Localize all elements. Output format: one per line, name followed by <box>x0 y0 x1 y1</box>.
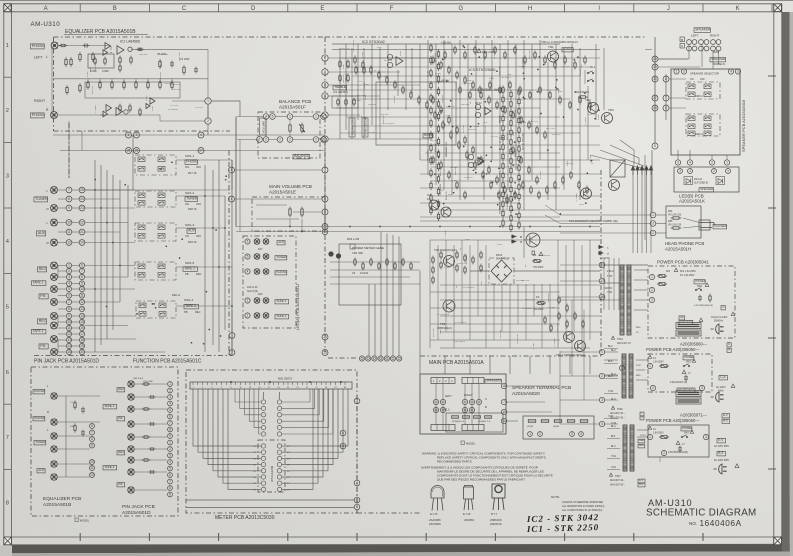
svg-text:13: 13 <box>323 230 327 234</box>
svg-text:POWER METER GENE.: POWER METER GENE. <box>352 246 385 250</box>
svg-text:1: 1 <box>652 213 654 217</box>
svg-text:R9 120K: R9 120K <box>531 118 533 127</box>
svg-text:M01 900?2: M01 900?2 <box>278 377 292 381</box>
svg-text:H: H <box>528 6 532 12</box>
svg-text:C30 10/16V: C30 10/16V <box>462 83 474 85</box>
svg-text:R18 8.2K: R18 8.2K <box>345 73 347 82</box>
x model note <box>75 518 90 523</box>
svg-text:TR1 to 3 2SC936K-NP(E,F): TR1 to 3 2SC936K-NP(E,F) <box>541 40 578 44</box>
svg-text:1: 1 <box>324 113 326 117</box>
svg-text:47uM: 47uM <box>466 80 471 82</box>
svg-text:F2 1.6A 250V: F2 1.6A 250V <box>680 274 695 277</box>
svg-text:13: 13 <box>80 307 84 311</box>
svg-text:UNLESS OTHERWISE SPECIFIED: UNLESS OTHERWISE SPECIFIED <box>562 500 603 504</box>
svg-text:D: D <box>251 6 256 12</box>
svg-text:5: 5 <box>654 144 656 148</box>
svg-text:SW1-3: SW1-3 <box>185 223 195 227</box>
svg-text:VOLUME: VOLUME <box>261 121 265 134</box>
svg-text:6: 6 <box>6 370 9 376</box>
svg-text:MODEL: MODEL <box>466 442 476 446</box>
speaker terminal PCB border <box>420 374 506 434</box>
svg-text:8: 8 <box>503 384 505 388</box>
pin-header column CN2 lower <box>79 263 84 268</box>
svg-text:1: 1 <box>169 382 171 386</box>
bundle vertical lines <box>632 175 634 253</box>
svg-text:R36 6.8K: R36 6.8K <box>435 143 437 152</box>
svg-text:(FU)R67 0.5: (FU)R67 0.5 <box>478 421 491 423</box>
node circle into T602 <box>620 366 625 371</box>
svg-text:2SD863: 2SD863 <box>464 518 475 522</box>
svg-text:4: 4 <box>730 70 732 74</box>
equalizer PCB bottom dashed border <box>31 367 178 516</box>
svg-text:C7 0.068: C7 0.068 <box>558 88 560 97</box>
svg-text:SW1: SW1 <box>697 285 703 288</box>
transistor TR9 <box>443 300 455 312</box>
svg-text:SW1-4: SW1-4 <box>184 298 194 302</box>
svg-text:10: 10 <box>67 221 71 225</box>
svg-text:6: 6 <box>169 415 171 419</box>
equalizer right-channel parts <box>150 98 155 104</box>
svg-text:17: 17 <box>600 279 604 283</box>
svg-text:D5-8: D5-8 <box>496 253 503 257</box>
svg-text:U: U <box>722 305 724 309</box>
svg-text:SPEAKER: SPEAKER <box>695 28 711 32</box>
svg-text:R27 1K: R27 1K <box>500 115 502 123</box>
svg-text:AC OUTLETS: AC OUTLETS <box>678 388 694 391</box>
svg-text:C7 0.068: C7 0.068 <box>524 239 533 241</box>
svg-text:2SD612K: 2SD612K <box>490 522 502 526</box>
svg-text:BLU: BLU <box>608 345 613 348</box>
CA boxed label <box>719 375 727 380</box>
svg-text:R10 10K: R10 10K <box>172 89 181 91</box>
svg-text:AC 220V 50Hz: AC 220V 50Hz <box>714 445 730 448</box>
svg-text:B: B <box>485 405 487 409</box>
function PCB dashed left border <box>228 151 230 356</box>
svg-text:MODELS: MODELS <box>713 62 725 66</box>
function PCB switch SW1-2 TUNER <box>135 191 176 207</box>
svg-text:R64: R64 <box>668 210 673 213</box>
LED(B) connector row <box>675 160 680 165</box>
svg-text:4: 4 <box>247 270 249 274</box>
svg-text:SW3-1: SW3-1 <box>695 94 703 98</box>
svg-text:R36 6.8K: R36 6.8K <box>500 66 502 75</box>
svg-text:REC H: REC H <box>172 293 180 297</box>
svg-text:1: 1 <box>231 334 233 338</box>
svg-text:1: 1 <box>247 314 249 318</box>
svg-text:PHONES: PHONES <box>714 224 727 228</box>
svg-text:RIGHT: RIGHT <box>464 393 473 397</box>
main volume dashed border <box>252 197 325 231</box>
arrow D <box>511 240 517 243</box>
svg-text:P.B: P.B <box>40 344 46 348</box>
svg-text:A2015A501H: A2015A501H <box>665 247 691 252</box>
signal bus wires y135 y150 <box>53 134 325 136</box>
svg-text:METER PCB A2013C5030: METER PCB A2013C5030 <box>215 515 275 521</box>
svg-text:AC13.6V: AC13.6V <box>600 257 610 260</box>
function PCB switch SW1-5 TAPE2 <box>135 262 176 280</box>
svg-text:9: 9 <box>91 444 93 448</box>
svg-text:B: B <box>681 38 683 42</box>
lower fuse box nodes <box>528 432 533 437</box>
jack to header wires <box>58 189 66 191</box>
svg-text:OFF: OFF <box>196 234 202 238</box>
svg-text:2: 2 <box>356 498 358 502</box>
svg-text:PB: PB <box>185 272 189 276</box>
svg-text:2: 2 <box>324 137 326 141</box>
svg-text:R9 120K: R9 120K <box>160 54 169 56</box>
vertical riser wires from eq to bus <box>68 121 70 178</box>
svg-text:IC1 - STK 2250: IC1 - STK 2250 <box>526 522 600 534</box>
input jacks AUX <box>51 219 58 226</box>
svg-text:1: 1 <box>207 99 209 103</box>
bottom eq components <box>74 400 76 409</box>
ruler right ticks <box>768 76 776 469</box>
svg-text:11: 11 <box>67 326 71 330</box>
svg-text:7: 7 <box>503 400 505 404</box>
svg-text:C: C <box>182 6 187 12</box>
svg-text:18: 18 <box>80 338 84 342</box>
x model note 2 <box>461 441 476 446</box>
svg-text:PHONO: PHONO <box>34 389 46 393</box>
svg-text:20: 20 <box>80 350 84 354</box>
svg-text:47uM: 47uM <box>146 96 148 101</box>
svg-text:EQUALIZER PCB A2015A501B: EQUALIZER PCB A2015A501B <box>65 29 136 35</box>
svg-text:6F3 1.6A 250V: 6F3 1.6A 250V <box>680 270 696 273</box>
headphone node circles <box>650 212 656 218</box>
svg-text:1: 1 <box>727 169 729 173</box>
svg-text:AC: AC <box>680 315 684 319</box>
svg-text:R60 5.6K: R60 5.6K <box>179 52 181 61</box>
pin jack and function area bottom dashed border <box>34 355 232 357</box>
svg-text:BLU: BLU <box>611 349 616 352</box>
svg-text:4.7uM: 4.7uM <box>444 267 450 269</box>
svg-text:C21 100/10V: C21 100/10V <box>462 287 475 289</box>
svg-text:YLW: YLW <box>611 422 617 425</box>
capacitor C3 <box>83 44 90 48</box>
transistor TR2 <box>588 103 599 114</box>
svg-text:BLK: BLK <box>608 360 613 363</box>
svg-text:TYW: TYW <box>607 275 613 278</box>
svg-text:HEAD PHONE PCB: HEAD PHONE PCB <box>665 241 704 246</box>
svg-text:100P: 100P <box>343 64 345 69</box>
dashed link to multi connector <box>328 357 358 359</box>
svg-text:D1 DS448: D1 DS448 <box>576 90 589 94</box>
svg-text:3: 3 <box>68 275 70 279</box>
transformer primary node circles column <box>599 349 604 354</box>
svg-text:8: 8 <box>169 428 171 432</box>
power wires to transformer top <box>604 264 648 266</box>
svg-text:2: 2 <box>6 108 9 114</box>
AC outlet hatch 1 <box>676 323 701 337</box>
svg-text:TR1: TR1 <box>548 45 554 49</box>
svg-text:R31 2.2K: R31 2.2K <box>588 114 597 116</box>
svg-text:REC: REC <box>196 272 202 276</box>
svg-text:R60 5.6K: R60 5.6K <box>529 50 531 59</box>
svg-text:4.7uM: 4.7uM <box>435 73 441 75</box>
svg-text:23: 23 <box>80 206 84 210</box>
svg-text:22: 22 <box>80 221 84 225</box>
svg-text:C21 100/10V: C21 100/10V <box>382 123 395 125</box>
svg-text:7: 7 <box>259 138 261 142</box>
svg-text:R36 6.8K: R36 6.8K <box>515 109 517 118</box>
node 2 circle <box>205 118 211 124</box>
svg-text:6F3: 6F3 <box>666 270 671 273</box>
ruler row ticks and numbers 1-8 <box>4 12 12 537</box>
arrow B <box>511 235 517 238</box>
svg-text:B,S: B,S <box>723 419 728 423</box>
svg-text:SLP-235B-51: SLP-235B-51 <box>694 182 709 185</box>
svg-text:R10 10K: R10 10K <box>557 323 559 332</box>
wire eq output to node bus <box>131 48 208 50</box>
svg-text:BLK: BLK <box>611 436 616 438</box>
speaker terminal circles <box>687 40 721 51</box>
svg-text:16: 16 <box>80 326 84 330</box>
volume risers <box>289 219 291 227</box>
power PCB1 node circles <box>649 274 654 279</box>
svg-text:2: 2 <box>207 119 209 123</box>
svg-text:SW1: SW1 <box>686 362 692 364</box>
svg-text:R9 120K: R9 120K <box>500 329 502 338</box>
svg-text:3: 3 <box>324 94 326 98</box>
svg-text:4: 4 <box>169 402 171 406</box>
svg-text:F1,2: F1,2 <box>444 408 450 412</box>
svg-text:R10 10K: R10 10K <box>160 59 162 68</box>
svg-text:C: C <box>641 416 643 419</box>
main amp transistor TR4 <box>581 188 592 199</box>
svg-text:0.022: 0.022 <box>90 66 92 72</box>
mid horizontal rails y226-231 junctions <box>349 226 351 228</box>
svg-text:TUNER: TUNER <box>35 440 46 444</box>
node 7 to balance <box>257 137 263 143</box>
svg-text:2SC536K: 2SC536K <box>429 522 441 526</box>
svg-text:YLW: YLW <box>608 415 614 418</box>
svg-text:RIGHT: RIGHT <box>34 99 46 103</box>
svg-text:TR6,7 2SB680K-NP(E,F): TR6,7 2SB680K-NP(E,F) <box>556 353 585 357</box>
op-amp IC2 triangle <box>396 57 403 66</box>
svg-text:E C B: E C B <box>430 512 437 516</box>
scan border right shadow band <box>782 12 790 552</box>
function PCB switch SW1-3 AUX <box>135 223 176 241</box>
input jacks REC <box>51 262 58 269</box>
transistor package TO-220 drawing 3 <box>492 484 505 510</box>
svg-text:1.6A 250V: 1.6A 250V <box>653 432 664 435</box>
svg-text:4: 4 <box>689 161 691 165</box>
svg-text:2: 2 <box>652 231 654 235</box>
svg-text:C12 22u: C12 22u <box>561 66 570 68</box>
balance boxed label <box>293 154 309 159</box>
svg-text:YLW: YLW <box>611 456 617 458</box>
svg-text:R27 1K: R27 1K <box>507 132 509 140</box>
op-amp IC1b <box>106 105 112 112</box>
svg-text:ALL RESISTORS IN OHMS 1/4W(U): ALL RESISTORS IN OHMS 1/4W(U) <box>562 504 605 508</box>
svg-text:9: 9 <box>169 493 171 497</box>
svg-text:4.7uM: 4.7uM <box>369 132 375 134</box>
svg-text:1640406A: 1640406A <box>700 519 742 528</box>
svg-text:8: 8 <box>169 486 171 490</box>
power PCB3 cap <box>676 441 680 444</box>
function PCB right-side wires to bus <box>176 159 232 161</box>
TR8 transistor <box>444 256 455 267</box>
svg-text:(FU) 2W 220: (FU) 2W 220 <box>668 215 682 217</box>
big emitter follower transistor circle <box>526 233 540 247</box>
svg-text:LED(A) PCB A2015A501J: LED(A) PCB A2015A501J <box>295 284 300 330</box>
meter PCB dashed border <box>186 370 357 513</box>
speaker selector node circles <box>674 69 679 74</box>
power PCB1 dashed border <box>648 266 735 338</box>
power PCB2 bottom nodes <box>650 385 655 390</box>
fuse F4 <box>532 259 542 262</box>
balance volume pot VR <box>263 114 269 120</box>
svg-text:NO.: NO. <box>689 521 697 526</box>
svg-text:IC5 KA2209: IC5 KA2209 <box>270 465 274 482</box>
svg-text:AM-U310: AM-U310 <box>648 498 692 508</box>
speaker switch SW3-2 <box>686 114 720 136</box>
svg-text:8: 8 <box>68 307 70 311</box>
function PCB wiring mesh <box>85 189 135 191</box>
main amp transistor TR5 <box>609 180 620 191</box>
svg-text:A: A <box>44 6 48 12</box>
svg-text:R52 1M: R52 1M <box>364 81 366 89</box>
LED(A) jack pair TUNER row <box>254 254 260 260</box>
AC plug 1 <box>711 324 724 334</box>
svg-text:(FU)R.: (FU)R. <box>527 426 534 428</box>
main amp resistor sprinkle <box>432 56 434 65</box>
svg-text:R44 560: R44 560 <box>461 104 470 106</box>
svg-text:8: 8 <box>81 275 83 279</box>
svg-text:A2015A501B: A2015A501B <box>43 502 71 508</box>
svg-text:R31 2.2K: R31 2.2K <box>341 48 350 50</box>
svg-text:J: J <box>667 6 670 12</box>
ruler bottom ticks <box>80 533 703 541</box>
IC6 1/2 circles cluster <box>429 200 439 210</box>
svg-text:7: 7 <box>91 431 93 435</box>
svg-text:NOTE: NOTE <box>551 495 559 499</box>
speaker terminal bottom strips <box>431 425 455 431</box>
svg-text:2: 2 <box>289 138 291 142</box>
svg-text:47uM: 47uM <box>451 180 456 182</box>
svg-text:SW1-1: SW1-1 <box>185 154 195 158</box>
svg-text:50/60Hz: 50/60Hz <box>714 320 724 323</box>
svg-text:6: 6 <box>272 115 274 119</box>
input jacks TUNER <box>51 187 58 194</box>
svg-text:FUNCTION PCB A2015A501C: FUNCTION PCB A2015A501C <box>133 359 202 365</box>
svg-text:R18 8.2K: R18 8.2K <box>552 134 561 136</box>
svg-text:7: 7 <box>68 188 70 192</box>
svg-text:4: 4 <box>169 460 171 464</box>
main volume pots and nodes <box>322 167 328 173</box>
svg-text:R31 2.2K: R31 2.2K <box>446 106 455 108</box>
svg-text:T60?: T60? <box>615 475 621 478</box>
wires bridge to transformer <box>514 270 600 272</box>
svg-text:R10 10K: R10 10K <box>453 259 455 268</box>
svg-text:TR9: TR9 <box>440 322 446 326</box>
svg-text:2: 2 <box>652 386 654 390</box>
dense column labels rotated <box>428 53 525 214</box>
main amp top rail <box>332 43 560 45</box>
svg-text:0.022: 0.022 <box>497 244 503 246</box>
svg-text:F: F <box>390 6 394 12</box>
svg-text:8: 8 <box>6 501 9 507</box>
speaker bus column x666 <box>663 76 669 82</box>
svg-text:3: 3 <box>651 298 653 302</box>
svg-text:R9 120K: R9 120K <box>463 124 465 133</box>
svg-text:2: 2 <box>265 138 267 142</box>
svg-text:R9 120K: R9 120K <box>540 170 542 179</box>
svg-text:ON: ON <box>185 165 189 169</box>
svg-text:8: 8 <box>91 437 93 441</box>
svg-text:L1 uM: L1 uM <box>500 137 502 143</box>
equalizer RC ladder under IC1a <box>88 54 114 68</box>
svg-text:TR6 2SD880 V(E): TR6 2SD880 V(E) <box>597 219 618 223</box>
balance wiring <box>265 119 267 136</box>
svg-text:POWER: POWER <box>695 279 706 283</box>
input jacks REC2 <box>51 313 58 320</box>
svg-text:R: R <box>47 410 49 414</box>
arrow c <box>598 245 604 248</box>
svg-text:R48 1K: R48 1K <box>188 207 197 211</box>
equalizer feedback network resistors <box>65 57 67 67</box>
svg-text:SLP-27(3): SLP-27(3) <box>247 290 258 293</box>
svg-text:2: 2 <box>713 169 715 173</box>
power PCB2 cap block <box>682 370 686 373</box>
svg-text:TAPE 1: TAPE 1 <box>276 299 286 303</box>
bottom eq TUNER jacks <box>34 440 46 445</box>
svg-text:K: K <box>736 6 740 12</box>
svg-text:A2015A501K: A2015A501K <box>679 199 705 204</box>
svg-text:7: 7 <box>81 269 83 273</box>
svg-text:11: 11 <box>80 294 84 298</box>
speakers boxed label <box>485 379 501 384</box>
speaker boxed label top <box>694 28 711 33</box>
svg-text:R10 10K: R10 10K <box>164 83 173 85</box>
svg-text:15: 15 <box>80 320 84 324</box>
svg-text:REC: REC <box>118 450 124 454</box>
ruler column ticks and letters A-K <box>11 4 772 12</box>
transistor package TO-92 drawing 1 <box>431 486 444 511</box>
svg-text:2: 2 <box>663 451 665 455</box>
svg-text:16: 16 <box>600 295 604 299</box>
svg-text:G: G <box>458 6 463 12</box>
svg-text:C12 22u: C12 22u <box>170 105 179 107</box>
svg-text:10: 10 <box>67 320 71 324</box>
svg-text:YLW: YLW <box>608 390 614 393</box>
svg-text:5: 5 <box>169 467 171 471</box>
bus node circles x127-132 <box>126 132 132 138</box>
power meter network <box>354 258 356 267</box>
svg-text:B: B <box>113 6 117 12</box>
LED(A) jack pair TAPE1 row <box>254 298 260 304</box>
speaker terminal feed wires <box>420 441 506 443</box>
U boxed label <box>721 305 725 310</box>
equalizer PCB dashed border <box>54 36 326 38</box>
svg-text:A: A <box>728 348 730 352</box>
LED(B) PCB solid border <box>674 167 739 192</box>
svg-text:3: 3 <box>701 386 703 390</box>
svg-text:15: 15 <box>323 351 327 355</box>
ruler corner boxes with X <box>4 4 12 12</box>
main amp mesh verticals <box>339 48 341 139</box>
svg-text:R23 4.7K: R23 4.7K <box>435 53 437 62</box>
svg-text:PHONO: PHONO <box>276 270 288 274</box>
wires equalizer to bus right <box>172 100 205 102</box>
svg-text:R23 47K: R23 47K <box>565 163 574 165</box>
svg-text:6: 6 <box>68 294 70 298</box>
transformer T601 <box>620 265 624 335</box>
svg-text:3: 3 <box>652 222 654 226</box>
svg-text:C21 100/10V: C21 100/10V <box>454 322 467 324</box>
svg-text:YLW: YLW <box>611 467 617 469</box>
svg-text:R65: R65 <box>668 220 673 223</box>
